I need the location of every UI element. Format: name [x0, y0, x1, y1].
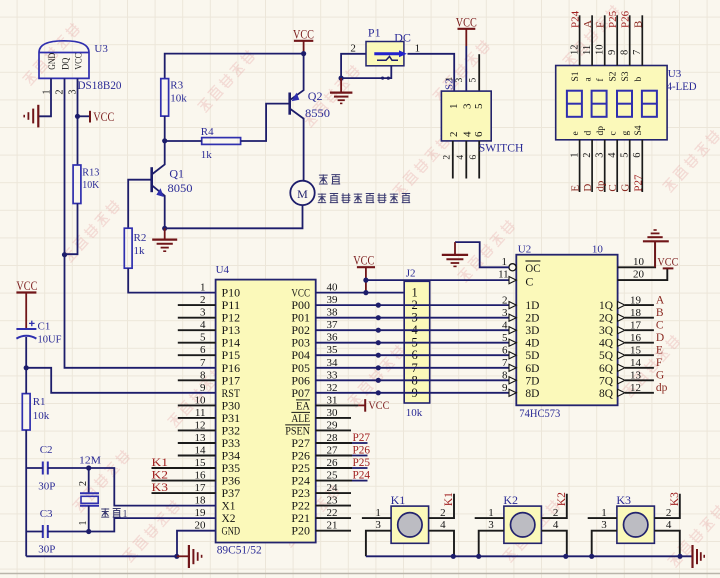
- U2 pin name OC with overline: [525, 261, 540, 275]
- wire K2 pin2 net stub: [541, 494, 566, 518]
- svg-text:S4: S4: [634, 125, 644, 135]
- S2 label SWITCH: [479, 140, 524, 154]
- wire C1 to RST node: [25, 337, 27, 368]
- R3 value 10k: [170, 92, 187, 104]
- wire S2 pin5 stub: [478, 54, 480, 91]
- U4 designator: [216, 264, 230, 276]
- wire rail to C2: [26, 467, 43, 469]
- svg-text:K1: K1: [391, 493, 406, 507]
- svg-text:OC: OC: [525, 261, 540, 275]
- svg-text:4: 4: [461, 131, 473, 137]
- svg-text:K3: K3: [152, 482, 169, 494]
- net label dp output stub: [625, 382, 668, 394]
- K1 pin numbers: [375, 507, 446, 531]
- net label P26 stub: [316, 442, 370, 456]
- ground at U2 OC: [442, 242, 468, 266]
- wire R13 to DQ node: [65, 204, 78, 255]
- svg-text:3: 3: [601, 519, 607, 531]
- U2 designator: [518, 243, 531, 255]
- svg-text:10k: 10k: [170, 92, 187, 104]
- svg-text:2: 2: [443, 155, 453, 160]
- svg-text:dp: dp: [596, 126, 606, 136]
- wire LED top pin 8 net P26: [620, 10, 632, 65]
- wire LED bottom pin 3 net dp: [595, 140, 607, 192]
- svg-text:F: F: [656, 357, 662, 369]
- svg-text:9: 9: [607, 50, 618, 55]
- node R3/R4/Q1 collector: [162, 138, 167, 143]
- wire P1 pin2 to ground: [341, 54, 366, 78]
- node VCC / pin40 wire: [363, 290, 368, 295]
- wire K1 pin2 net stub: [429, 494, 454, 518]
- wire LED bottom pin 2 net D: [582, 140, 594, 192]
- wire K1 pin1 stub: [362, 517, 391, 519]
- svg-text:7: 7: [502, 357, 508, 369]
- net K2 to P36: [152, 470, 216, 482]
- svg-text:1: 1: [445, 77, 455, 82]
- net K3 to P37: [152, 482, 216, 494]
- svg-text:E: E: [570, 185, 582, 192]
- svg-text:K3: K3: [616, 493, 631, 507]
- svg-text:20: 20: [633, 269, 645, 281]
- U4 left pin names: [222, 286, 241, 538]
- svg-text:K1: K1: [152, 457, 169, 469]
- svg-text:dp: dp: [656, 382, 668, 394]
- net label D output stub: [625, 332, 664, 344]
- wire EA to VCC tick: [316, 398, 390, 412]
- wire node to U4 X1: [89, 468, 216, 506]
- svg-text:19: 19: [195, 507, 207, 519]
- wire K2 pin1 stub: [475, 517, 504, 519]
- svg-text:8D: 8D: [525, 386, 539, 400]
- wires P00-P07 bus to 74HC573: [316, 305, 510, 393]
- svg-text:P20: P20: [291, 524, 310, 538]
- K2 designator: [503, 493, 518, 507]
- svg-text:10UF: 10UF: [38, 334, 62, 346]
- Q2 value 8550: [305, 106, 330, 120]
- svg-text:12M: 12M: [79, 454, 101, 466]
- svg-text:R1: R1: [33, 396, 46, 408]
- svg-text:3: 3: [488, 519, 494, 531]
- svg-text:2: 2: [448, 132, 460, 138]
- wire U4 GND to rail: [177, 531, 216, 557]
- U2 pin 1 number: [502, 256, 508, 268]
- S2 designator: [444, 78, 456, 90]
- U2 pin 11 number: [498, 269, 509, 281]
- connector P1 DC jack: [366, 42, 407, 66]
- svg-text:18: 18: [195, 495, 207, 507]
- display designator U3: [668, 68, 682, 80]
- display segment digits: [567, 91, 657, 117]
- svg-text:DQ: DQ: [60, 57, 70, 69]
- wire LED top pin 11 net A: [582, 15, 594, 65]
- power VCC top rail: [293, 26, 314, 53]
- svg-text:6: 6: [502, 344, 508, 356]
- svg-text:Q1: Q1: [169, 166, 184, 180]
- net label E output stub: [625, 345, 663, 357]
- wire K3 pin3 to rail: [592, 531, 617, 557]
- wire bottom ground rail right: [366, 555, 693, 557]
- U2 output pin names 1Q-8Q: [599, 298, 613, 400]
- U4 value 89C51/52: [217, 543, 262, 557]
- Q1 value 8050: [168, 181, 193, 195]
- wire K1 pin3 to rail: [366, 531, 391, 557]
- svg-text:89C51/52: 89C51/52: [217, 543, 262, 557]
- node crystal bottom: [86, 529, 91, 534]
- wire K3 pin1 stub: [588, 517, 617, 519]
- wire R4 to Q2 base: [241, 104, 290, 141]
- svg-text:10k: 10k: [406, 407, 423, 419]
- crystal value 12M: [79, 454, 101, 466]
- P1 pin 1 number: [415, 42, 421, 54]
- R2 value 1k: [134, 245, 146, 257]
- U3 pin name DQ: [60, 57, 70, 69]
- svg-text:2: 2: [502, 294, 508, 306]
- K1 designator: [391, 493, 406, 507]
- svg-text:S2: S2: [609, 71, 619, 81]
- R4 designator: [201, 126, 214, 138]
- svg-text:C3: C3: [40, 508, 53, 520]
- resistor R1: [22, 394, 30, 430]
- wire U3 pin1 to ground: [38, 78, 51, 116]
- svg-text:B: B: [632, 21, 644, 28]
- S2 inner pin names 2 4 6: [448, 131, 485, 137]
- latch U2 74HC573 body: [516, 255, 617, 406]
- node VCC rail Q2 emitter: [301, 51, 306, 56]
- C2 value 30P: [38, 481, 55, 493]
- R2 designator: [134, 232, 147, 244]
- R1 value 10k: [33, 410, 50, 422]
- wire U2 latch-enable C to VCC: [366, 279, 509, 281]
- resistor network J2 body: [404, 281, 430, 403]
- crystal Y1: [80, 468, 99, 532]
- svg-text:2: 2: [666, 507, 672, 519]
- svg-text:2: 2: [582, 153, 593, 158]
- svg-text:D: D: [656, 332, 664, 344]
- wire C3 to crystal bottom node: [48, 531, 89, 533]
- ground at P1: [330, 78, 352, 103]
- R13 designator: [82, 167, 99, 179]
- svg-text:A: A: [582, 20, 594, 28]
- svg-text:10k: 10k: [33, 410, 50, 422]
- svg-text:K2: K2: [152, 470, 169, 482]
- wire RST node to R1: [25, 368, 27, 394]
- K3 pin numbers: [601, 507, 672, 531]
- node DQ/R13 junction: [62, 252, 67, 257]
- svg-text:F: F: [595, 22, 607, 28]
- svg-text:G: G: [656, 370, 664, 382]
- svg-text:9: 9: [502, 382, 508, 394]
- svg-text:C2: C2: [40, 444, 53, 456]
- U2 input pin names 1D-8D: [525, 298, 539, 400]
- svg-text:E: E: [656, 345, 663, 357]
- svg-text:6: 6: [632, 153, 643, 158]
- svg-text:8: 8: [502, 370, 508, 382]
- U2 extra text 10: [592, 243, 604, 255]
- svg-text:1: 1: [569, 153, 580, 158]
- U4 right pin names: [285, 286, 310, 538]
- junction dots P0 bus: [376, 303, 381, 396]
- svg-text:6: 6: [473, 131, 485, 137]
- svg-text:8: 8: [620, 50, 631, 55]
- svg-text:S1: S1: [571, 71, 581, 81]
- svg-text:1: 1: [502, 256, 508, 268]
- S2 bottom pin numbers: [443, 155, 479, 160]
- power VCC at J2: [353, 252, 375, 292]
- svg-text:B: B: [656, 307, 664, 319]
- svg-text:P24: P24: [570, 10, 582, 28]
- switch S2 body: [441, 91, 491, 141]
- U4 right pin numbers: [327, 282, 339, 532]
- svg-text:3: 3: [502, 307, 508, 319]
- wire left ground rail: [26, 555, 177, 557]
- wire R2 to U4 P10: [128, 268, 215, 292]
- ground bottom left: [177, 545, 202, 568]
- wire jack sleeve to node: [341, 66, 391, 80]
- node crystal top: [86, 465, 91, 470]
- svg-text:1: 1: [375, 507, 381, 519]
- ground at Q1 emitter: [152, 228, 177, 251]
- svg-text:D: D: [582, 184, 594, 192]
- U3 value DS18B20: [78, 78, 122, 92]
- display bottom pin names: [571, 125, 644, 135]
- svg-text:1: 1: [601, 507, 607, 519]
- wire LED top pin 7 net B: [632, 15, 644, 65]
- svg-text:S3: S3: [621, 71, 631, 81]
- net label P25 stub: [316, 455, 370, 469]
- wire DQ to U4 P16: [65, 255, 216, 368]
- svg-text:10: 10: [592, 243, 604, 255]
- display U3 4-LED body: [556, 66, 667, 140]
- wire rail to C3: [26, 531, 43, 533]
- U3 pin name VCC: [73, 53, 83, 70]
- net label G output stub: [625, 370, 664, 382]
- C1 value 10UF: [38, 334, 62, 346]
- ground bottom right: [693, 545, 705, 568]
- svg-text:U2: U2: [518, 243, 531, 255]
- pushbutton K1 body: [391, 506, 429, 543]
- svg-text:P1: P1: [368, 26, 381, 40]
- S2 inner pin names 1 3 5: [448, 103, 485, 109]
- svg-text:3: 3: [455, 78, 465, 83]
- svg-text:2: 2: [350, 42, 356, 54]
- svg-text:12: 12: [569, 45, 580, 56]
- svg-text:4: 4: [440, 519, 446, 531]
- U3 pin name GND: [47, 52, 57, 69]
- resistor R4: [202, 138, 241, 145]
- power VCC left: [16, 278, 37, 329]
- svg-text:e: e: [571, 131, 581, 135]
- motor M fan: [290, 181, 314, 205]
- C3 designator: [40, 508, 53, 520]
- svg-text:10: 10: [633, 256, 645, 268]
- J2 designator: [406, 268, 416, 280]
- svg-text:11: 11: [582, 45, 593, 55]
- pushbutton K3 body: [617, 506, 655, 543]
- svg-text:C: C: [525, 274, 533, 288]
- svg-text:5: 5: [473, 103, 485, 109]
- U4 right unconnected stubs: [316, 418, 351, 531]
- wire LED top pin 9 net P25: [607, 10, 619, 65]
- wire motor bottom to emitter node: [165, 205, 303, 228]
- node P1 ground junction: [339, 76, 344, 81]
- svg-text:R2: R2: [134, 232, 147, 244]
- wire U4 X2 to crystal bottom: [89, 518, 216, 531]
- net label K1: [443, 492, 455, 506]
- P1 pin 2 number: [350, 42, 356, 54]
- ground at U3 pin1: [24, 105, 38, 128]
- svg-text:3: 3: [595, 153, 606, 158]
- svg-text:C1: C1: [38, 321, 51, 333]
- svg-text:4: 4: [502, 319, 508, 331]
- crystal name: [101, 508, 127, 520]
- node ground rail left: [174, 554, 179, 559]
- display value 4-LED: [667, 79, 697, 93]
- svg-text:U3: U3: [94, 43, 108, 55]
- wire OC to ground: [455, 242, 509, 267]
- wire LED bottom pin 6 net P27: [632, 140, 644, 192]
- Q2 designator: [308, 89, 323, 103]
- svg-text:P25: P25: [607, 10, 619, 28]
- S2 bottom stubs: [453, 141, 479, 179]
- svg-text:VCC: VCC: [93, 109, 114, 124]
- svg-text:c: c: [609, 131, 619, 135]
- svg-text:K1: K1: [443, 492, 455, 506]
- transistor Q2: [290, 54, 304, 181]
- svg-text:5: 5: [502, 332, 508, 344]
- wire LED top pin 10 net F: [595, 15, 607, 65]
- svg-text:30P: 30P: [38, 544, 55, 556]
- svg-text:VCC: VCC: [456, 15, 477, 30]
- wire R3 to node: [164, 116, 166, 141]
- svg-text:9: 9: [200, 382, 206, 394]
- U3 pin numbers 1 2 3: [42, 90, 79, 95]
- svg-text:1: 1: [448, 104, 460, 110]
- svg-text:11: 11: [498, 269, 509, 281]
- node Q1 emitter motor ground: [162, 226, 167, 231]
- resistor R13: [73, 165, 81, 204]
- svg-text:R13: R13: [82, 167, 99, 179]
- U2 pin 20 number: [633, 269, 645, 281]
- svg-text:3: 3: [375, 519, 381, 531]
- wire node to U4 RST: [26, 368, 215, 393]
- C2 designator: [40, 444, 53, 456]
- svg-text:6: 6: [469, 155, 479, 160]
- U2 output triangles: [618, 302, 625, 397]
- U2 pin 10 number: [633, 256, 645, 268]
- wire VCC rail to R3: [165, 54, 304, 79]
- svg-text:4: 4: [666, 519, 672, 531]
- svg-text:d: d: [584, 131, 594, 136]
- svg-text:8Q: 8Q: [599, 386, 613, 400]
- svg-text:1k: 1k: [134, 245, 146, 257]
- svg-text:R3: R3: [170, 80, 183, 92]
- U2 input triangles: [509, 277, 516, 397]
- net label K2: [556, 492, 568, 506]
- svg-text:b: b: [634, 77, 644, 82]
- svg-text:1: 1: [415, 42, 421, 54]
- nodes on right ground rail: [451, 554, 683, 559]
- wire R1 to ground rail: [25, 430, 27, 556]
- svg-text:K3: K3: [669, 492, 681, 506]
- transistor Q1: [152, 141, 165, 229]
- R1 designator: [33, 396, 46, 408]
- S2 top pin numbers: [445, 77, 478, 83]
- wire K3 pin4 to rail: [654, 531, 679, 557]
- svg-text:20: 20: [195, 520, 207, 532]
- svg-text:2: 2: [553, 507, 559, 519]
- svg-text:1: 1: [488, 507, 494, 519]
- net label B output stub: [625, 307, 664, 319]
- capacitor C2: [43, 462, 48, 475]
- net label P24 stub: [316, 467, 370, 481]
- svg-text:4: 4: [607, 152, 618, 158]
- wire U2 pin20 to VCC: [618, 268, 668, 280]
- U4 left pin numbers: [195, 282, 207, 532]
- svg-text:A: A: [656, 295, 665, 307]
- U2 output pin numbers: [630, 294, 642, 394]
- svg-text:P24: P24: [353, 467, 371, 481]
- svg-text:7: 7: [200, 357, 206, 369]
- node RST junction: [24, 365, 29, 370]
- C3 value 30P: [38, 544, 55, 556]
- net label K3: [669, 492, 681, 506]
- svg-text:VCC: VCC: [353, 252, 374, 267]
- P1 designator: [368, 26, 381, 40]
- svg-text:R4: R4: [201, 126, 214, 138]
- svg-text:VCC: VCC: [73, 53, 83, 70]
- R3 designator: [170, 80, 183, 92]
- crystal pin 1 label: [78, 521, 89, 526]
- J2 value 10k: [406, 407, 423, 419]
- svg-text:3: 3: [461, 103, 473, 109]
- wire K1 pin4 to rail: [429, 531, 454, 557]
- capacitor C3: [43, 525, 48, 538]
- wire LED bottom pin 1 net E: [569, 140, 581, 192]
- wire Q1 base to R2: [128, 180, 152, 229]
- svg-text:4-LED: 4-LED: [667, 79, 697, 93]
- svg-text:VCC: VCC: [657, 255, 678, 269]
- svg-text:SWITCH: SWITCH: [479, 140, 524, 154]
- P1 label DC: [394, 30, 411, 44]
- U2 input pin numbers: [502, 294, 508, 394]
- net label F output stub: [625, 357, 662, 369]
- svg-text:J2: J2: [406, 268, 416, 280]
- crystal pin 2 label: [78, 481, 89, 486]
- power VCC at U3 pin3: [90, 109, 114, 124]
- wire LED bottom pin 4 net C: [607, 140, 619, 192]
- mcu U4 89C51/52 body: [216, 280, 316, 543]
- wire P1 pin1 to S2 pin1: [408, 54, 455, 91]
- svg-text:8050: 8050: [168, 181, 193, 195]
- svg-text:P27: P27: [632, 174, 644, 192]
- U2 value 74HC573: [519, 406, 560, 420]
- wire K3 pin2 net stub: [654, 494, 679, 518]
- svg-text:g: g: [621, 131, 631, 136]
- wire U2 pin10 to ground above: [618, 241, 656, 267]
- C1 designator: [38, 321, 51, 333]
- ground above U2 (inverted): [643, 230, 669, 267]
- wire C2 to crystal node: [48, 467, 89, 469]
- net label A output stub: [625, 295, 665, 307]
- svg-text:G: G: [620, 184, 632, 192]
- svg-text:K2: K2: [503, 493, 518, 507]
- svg-text:dp: dp: [595, 180, 607, 192]
- svg-text:Q2: Q2: [308, 89, 323, 103]
- svg-text:10: 10: [595, 45, 606, 56]
- svg-text:M: M: [297, 187, 308, 201]
- fan polarity note: [318, 193, 410, 203]
- net label P27 stub: [316, 430, 370, 444]
